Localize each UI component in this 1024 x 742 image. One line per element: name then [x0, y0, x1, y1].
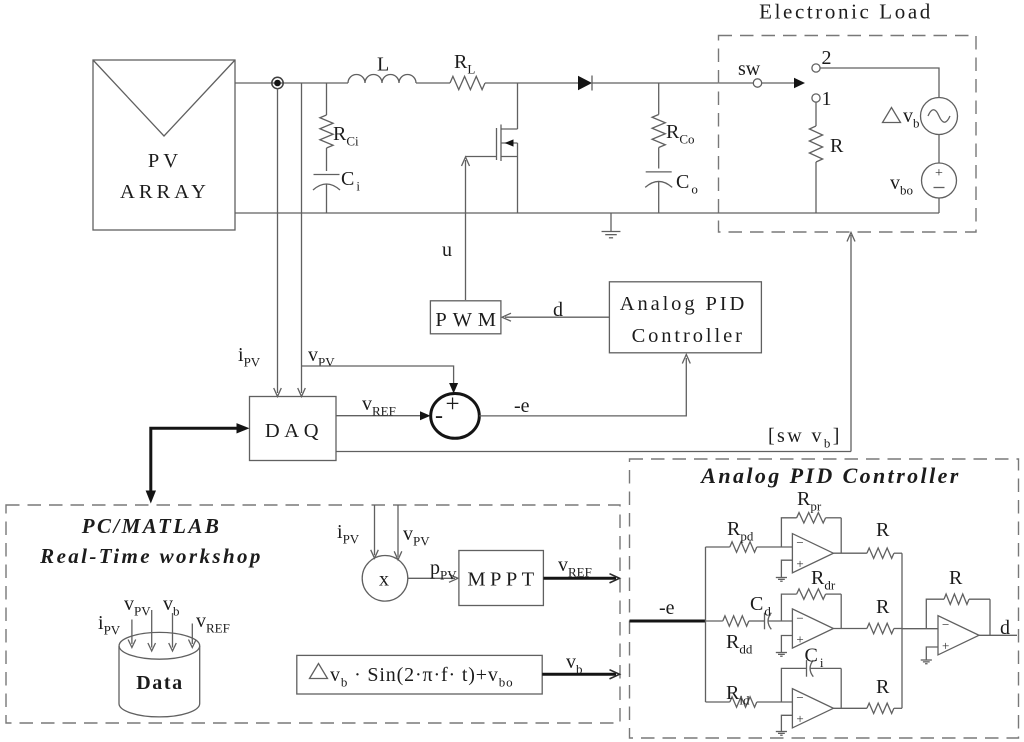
svg-text:PC/MATLAB: PC/MATLAB: [81, 514, 221, 538]
svg-text:R: R: [949, 567, 963, 589]
svg-text:R: R: [876, 676, 890, 698]
svg-text:u: u: [442, 239, 452, 261]
svg-text:R: R: [876, 519, 890, 541]
svg-text:MPPT: MPPT: [467, 569, 538, 591]
svg-text:2: 2: [822, 47, 832, 69]
svg-text:R: R: [830, 135, 844, 157]
svg-text:-e: -e: [659, 597, 675, 619]
svg-text:Real-Time workshop: Real-Time workshop: [39, 544, 263, 568]
svg-text:+: +: [796, 631, 803, 646]
svg-text:Analog PID: Analog PID: [620, 293, 748, 315]
svg-text:−: −: [796, 535, 803, 550]
svg-text:-: -: [435, 403, 443, 429]
svg-text:+: +: [942, 638, 949, 653]
svg-text:+: +: [445, 391, 459, 418]
svg-text:+: +: [935, 166, 943, 181]
svg-text:−: −: [942, 617, 949, 632]
svg-text:Controller: Controller: [632, 325, 745, 347]
svg-text:d: d: [1000, 617, 1010, 639]
svg-text:d: d: [553, 299, 563, 321]
svg-text:Electronic Load: Electronic Load: [759, 0, 933, 24]
svg-text:R: R: [876, 596, 890, 618]
svg-text:PV: PV: [148, 150, 182, 172]
svg-text:+: +: [796, 711, 803, 726]
svg-text:vb · Sin(2·π·f· t)+vbo: vb · Sin(2·π·f· t)+vbo: [330, 664, 513, 690]
svg-text:ARRAY: ARRAY: [120, 181, 210, 203]
svg-text:−: −: [796, 610, 803, 625]
svg-text:Analog PID Controller: Analog PID Controller: [699, 463, 960, 488]
svg-text:x: x: [379, 569, 389, 591]
svg-text:PWM: PWM: [435, 309, 501, 331]
svg-text:L: L: [377, 54, 389, 76]
svg-text:-e: -e: [514, 395, 530, 417]
svg-text:−: −: [796, 690, 803, 705]
svg-text:1: 1: [822, 88, 832, 110]
svg-text:+: +: [796, 556, 803, 571]
svg-text:sw: sw: [738, 58, 761, 80]
svg-text:Data: Data: [136, 672, 184, 694]
svg-text:DAQ: DAQ: [265, 420, 323, 442]
